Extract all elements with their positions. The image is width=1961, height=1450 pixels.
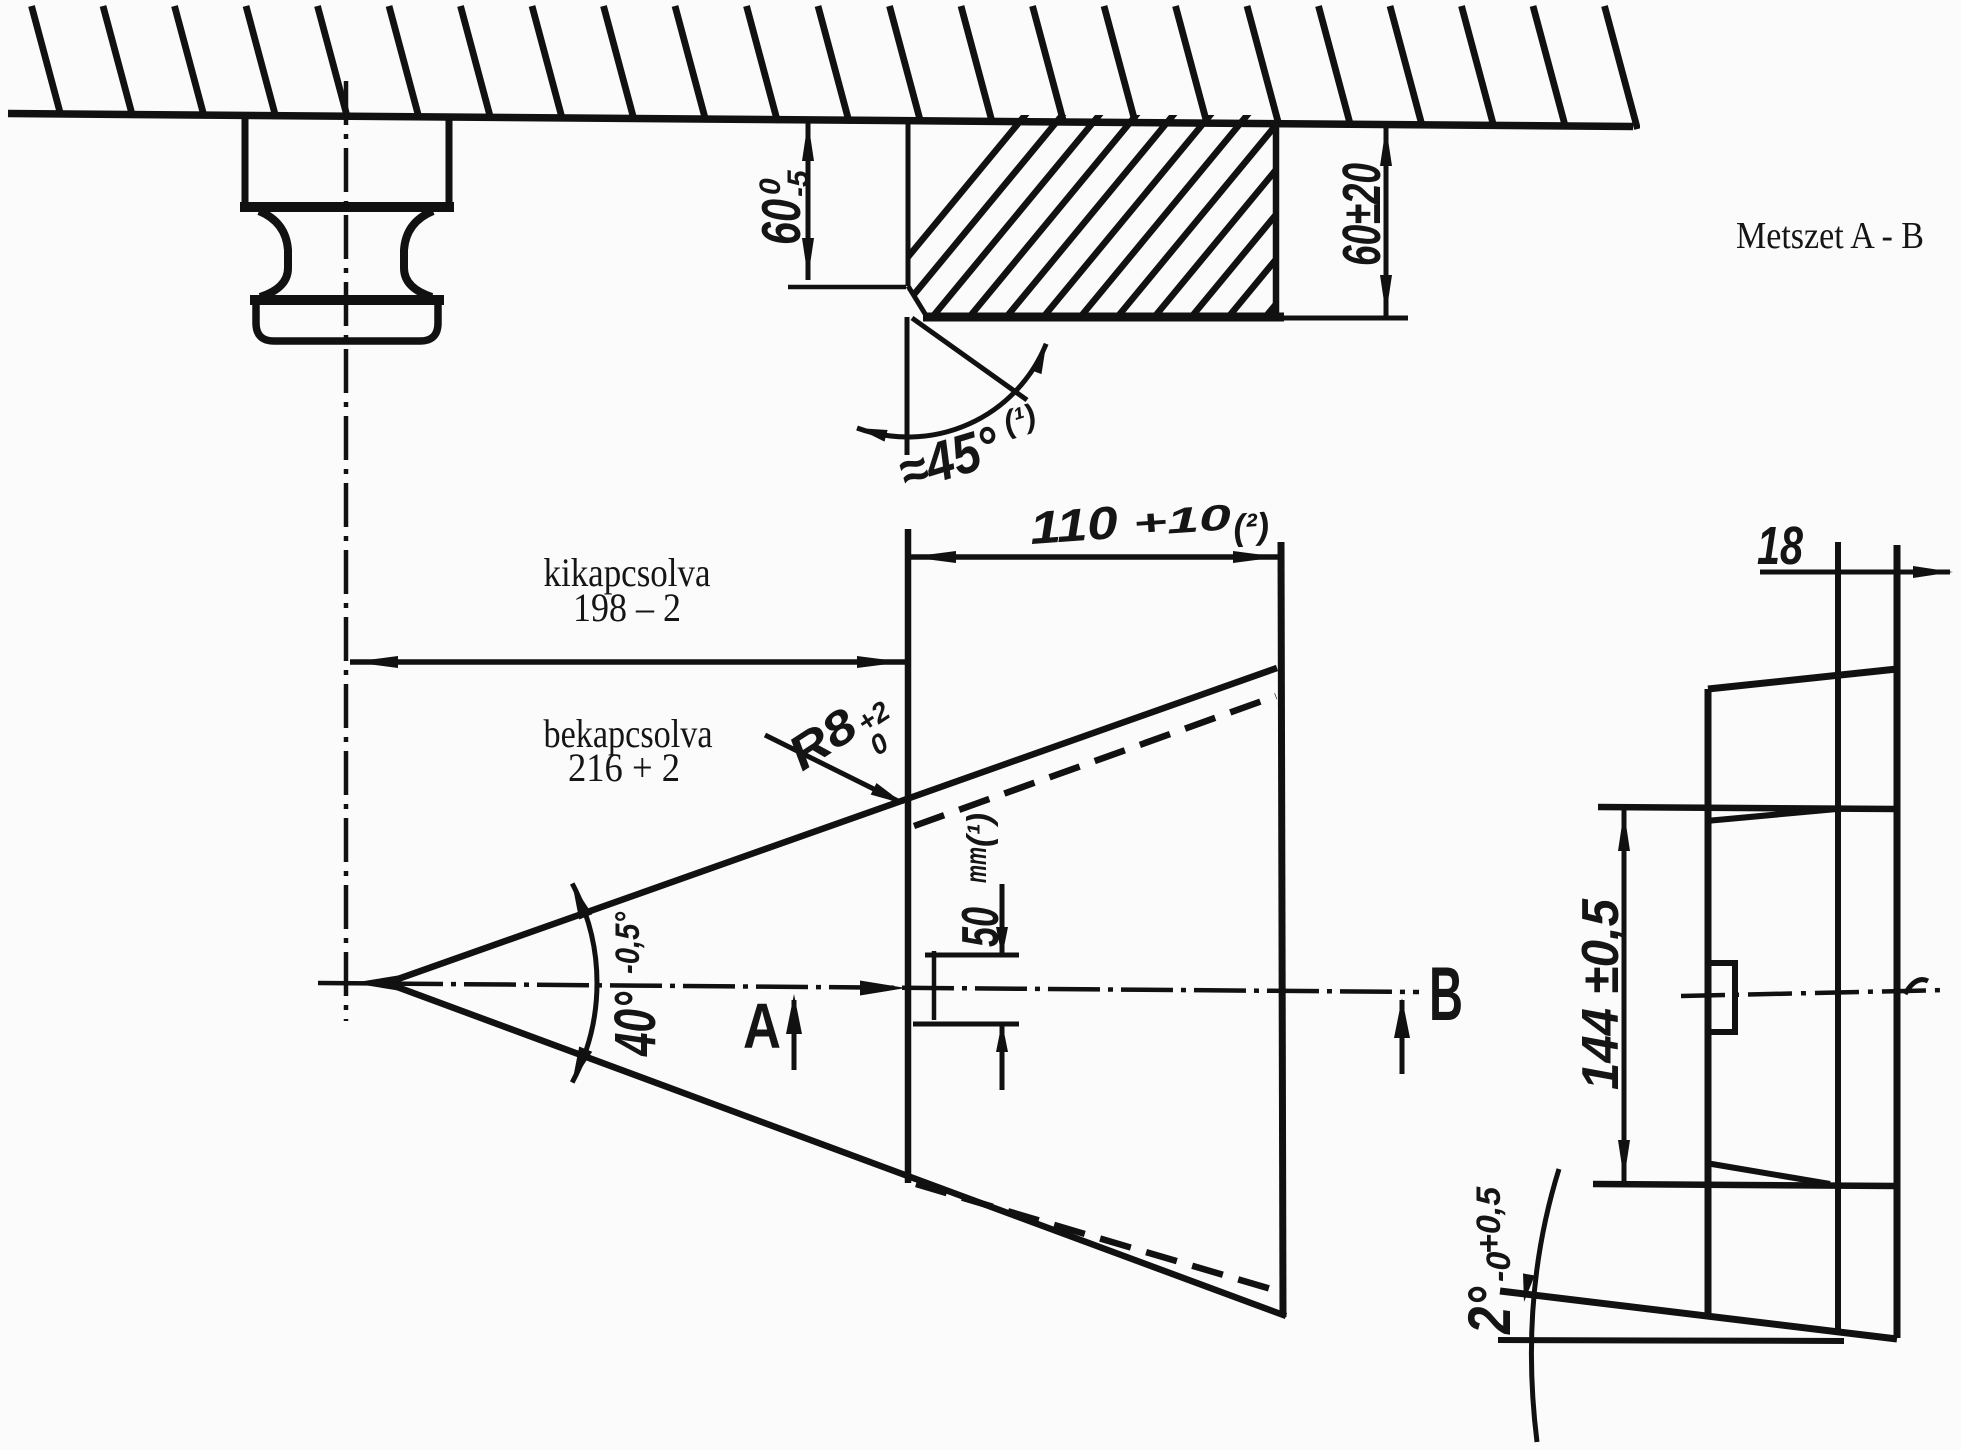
svg-text:198 – 2: 198 – 2 bbox=[573, 585, 681, 630]
ceiling line bbox=[8, 114, 1633, 127]
45 deg diagonal bbox=[912, 318, 1027, 400]
svg-text:B: B bbox=[1429, 952, 1463, 1037]
2 deg leader bbox=[1531, 1169, 1559, 1442]
stud centerline bbox=[344, 81, 349, 1021]
stud neck bbox=[259, 211, 288, 297]
side clip rectangle bbox=[1708, 963, 1735, 1032]
svg-text:mm: mm bbox=[960, 847, 993, 883]
svg-text:50: 50 bbox=[952, 907, 1010, 947]
svg-text:60±20: 60±20 bbox=[1332, 163, 1392, 266]
cone bottom line bbox=[381, 981, 1286, 1316]
side view bottom reference bbox=[1498, 1340, 1844, 1341]
45 deg reference vertical bbox=[905, 317, 910, 455]
45 deg arc bbox=[857, 344, 1046, 437]
svg-text:144 ±0,5: 144 ±0,5 bbox=[1572, 898, 1630, 1090]
dimension 50mm bbox=[925, 953, 1019, 958]
funnel mouth vertical bbox=[905, 529, 912, 1183]
leader R8 bbox=[765, 735, 898, 801]
main centerline bbox=[318, 983, 1419, 992]
label 40deg bbox=[603, 912, 668, 1057]
svg-text:-0: -0 bbox=[1480, 1252, 1518, 1282]
dimension 18 bbox=[1760, 570, 1950, 575]
cone top line bbox=[381, 668, 1277, 985]
label 45deg bbox=[890, 397, 1049, 504]
funnel right edge bbox=[1281, 542, 1283, 1317]
svg-text:Metszet A - B: Metszet A - B bbox=[1736, 215, 1924, 257]
svg-text:A: A bbox=[743, 990, 781, 1062]
svg-text:+0,5: +0,5 bbox=[1470, 1186, 1508, 1254]
contact block edges bbox=[906, 121, 911, 286]
svg-text:216 + 2: 216 + 2 bbox=[568, 745, 680, 790]
contact block hatch bbox=[846, 108, 1438, 332]
dimension kikapcsolva 198-2 bbox=[350, 659, 905, 665]
svg-text:2°: 2° bbox=[1456, 1286, 1523, 1335]
label 2deg bbox=[1456, 1186, 1523, 1335]
dimension 144 bbox=[1622, 809, 1627, 1182]
side view top edge bbox=[1708, 669, 1897, 689]
side view right edge bbox=[1894, 545, 1901, 1338]
svg-text:40°: 40° bbox=[603, 991, 668, 1056]
dimension 60±20 bbox=[1384, 125, 1389, 316]
stud top rectangle bbox=[242, 117, 249, 208]
side view top step bbox=[1598, 807, 1896, 809]
40 deg arc bbox=[572, 884, 597, 1083]
dimension 110+10 bbox=[908, 554, 1281, 560]
dimension 60-0/5 bbox=[806, 122, 811, 280]
side centerline bbox=[1681, 990, 1948, 996]
svg-text:110: 110 bbox=[1028, 496, 1120, 554]
svg-text:-0,5°: -0,5° bbox=[609, 912, 647, 974]
side view bottom edge bbox=[1500, 1291, 1897, 1339]
svg-text:+10: +10 bbox=[1132, 496, 1233, 544]
svg-text:18: 18 bbox=[1757, 516, 1803, 576]
side view inner vertical bbox=[1835, 542, 1841, 1333]
side view bottom step bbox=[1593, 1184, 1897, 1186]
svg-text:(¹): (¹) bbox=[961, 813, 999, 847]
side view left edge bbox=[1705, 689, 1712, 1316]
dashed bottom bbox=[916, 1184, 1281, 1292]
svg-text:60: 60 bbox=[750, 199, 812, 245]
svg-text:-5: -5 bbox=[782, 169, 815, 197]
dashed top bbox=[914, 696, 1276, 826]
svg-text:(²): (²) bbox=[1232, 505, 1271, 548]
stud flange bbox=[250, 295, 444, 305]
dimension bekapcsolva 216+2 bbox=[352, 976, 398, 991]
